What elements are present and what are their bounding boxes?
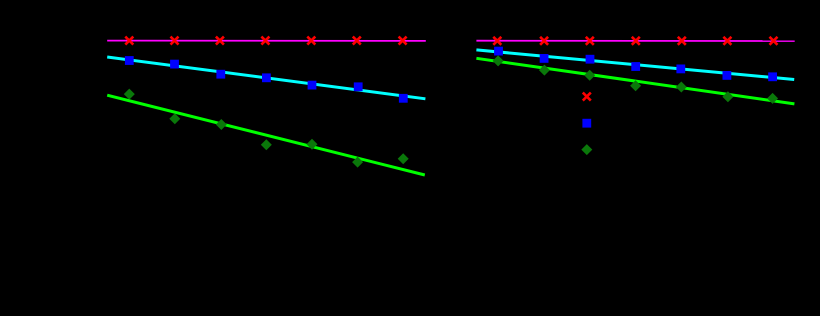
left panel: dark green diamond markers (124, 89, 409, 168)
legend: dark green diamond marker sample (581, 144, 592, 155)
legend: red X marker sample (583, 93, 591, 101)
left panel: green fit line (107, 95, 425, 175)
right panel: dark green diamond markers (493, 55, 778, 104)
left panel: cyan fit line (107, 57, 425, 99)
right panel: green fit line (476, 58, 794, 104)
right panel: cyan fit line (476, 50, 794, 80)
legend: blue square marker sample (582, 119, 591, 128)
right panel: magenta fit line (476, 40, 794, 42)
left panel: red X markers (125, 37, 406, 45)
right panel: blue square markers (494, 47, 777, 82)
left panel: magenta fit line (107, 40, 426, 42)
left panel: blue square markers (125, 56, 408, 103)
right panel: red X markers (493, 37, 777, 45)
